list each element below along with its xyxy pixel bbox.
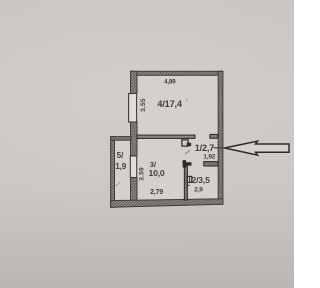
svg-text:3,55: 3,55 xyxy=(140,98,147,112)
svg-text:3,59: 3,59 xyxy=(138,167,145,181)
svg-text:5/: 5/ xyxy=(117,151,125,160)
svg-text:10,0: 10,0 xyxy=(149,168,165,178)
svg-text:2,9: 2,9 xyxy=(194,187,203,194)
svg-text:1,92: 1,92 xyxy=(203,153,215,160)
svg-text:2,79: 2,79 xyxy=(150,189,163,196)
svg-text:1,9: 1,9 xyxy=(115,162,126,171)
svg-text:4/17,4: 4/17,4 xyxy=(157,99,182,109)
svg-text:1/2,7: 1/2,7 xyxy=(195,143,214,153)
svg-text:4,89: 4,89 xyxy=(164,78,176,85)
svg-text:2/3,5: 2/3,5 xyxy=(192,175,211,185)
